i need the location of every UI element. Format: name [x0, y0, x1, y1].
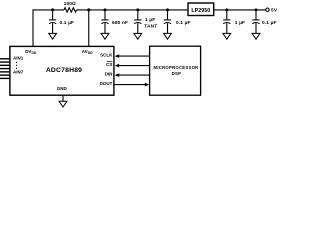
ground under C3: [134, 33, 142, 39]
svg-text:1 µF: 1 µF: [235, 20, 245, 26]
microprocessor U3 box: [150, 46, 201, 95]
svg-text:5V: 5V: [271, 7, 278, 13]
ground under C6: [252, 33, 260, 39]
ADC U1 box: [10, 46, 114, 95]
resistor R1 100 ohm: [64, 8, 76, 12]
svg-text:AIN1: AIN1: [13, 55, 24, 60]
svg-text:ADC78H89: ADC78H89: [46, 67, 82, 74]
wire top rail left segment: [33, 10, 64, 47]
svg-text:DOUT: DOUT: [100, 81, 113, 86]
ground under ADC: [59, 101, 67, 107]
wire AVDD drop: [88, 10, 90, 47]
svg-text:LP2950: LP2950: [191, 8, 210, 14]
node dots between AIN labels: [16, 62, 17, 69]
wire SCLK with arrow into ADC: [118, 55, 150, 57]
capacitor C5 1uF: [223, 10, 230, 34]
wire DIN with arrow into ADC: [118, 74, 150, 76]
svg-text:CS: CS: [106, 62, 112, 67]
svg-text:100Ω: 100Ω: [64, 1, 76, 7]
svg-text:0.1 µF: 0.1 µF: [60, 20, 75, 26]
svg-text:DIN: DIN: [105, 72, 113, 77]
capacitor C4 0.1uF: [164, 10, 171, 34]
analog input bus AIN1-AIN7: [0, 59, 10, 79]
wire rail middle: [77, 9, 189, 11]
capacitor C6 0.1uF: [252, 10, 259, 34]
ground under C4: [164, 33, 172, 39]
svg-text:AIN7: AIN7: [13, 70, 24, 75]
svg-text:0.1 µF: 0.1 µF: [176, 20, 191, 26]
wire GND stem: [62, 95, 64, 101]
svg-text:680 nF: 680 nF: [112, 20, 128, 26]
capacitor C1 0.1uF: [49, 10, 56, 34]
svg-text:DSP: DSP: [172, 71, 182, 76]
ground under C2: [101, 33, 109, 39]
svg-text:SCLK: SCLK: [100, 53, 113, 58]
ground under C1: [49, 33, 57, 39]
capacitor C2 680nF: [101, 10, 108, 34]
svg-text:1 µF: 1 µF: [145, 17, 155, 23]
capacitor C3 1uF TANT: [134, 10, 141, 34]
wire rail right of LP2950: [214, 9, 266, 11]
regulator U2 LP2950: [188, 3, 214, 16]
svg-text:TANT: TANT: [144, 24, 157, 30]
node 5V terminal: [266, 8, 269, 11]
svg-text:MICROPROCESSOR: MICROPROCESSOR: [154, 65, 199, 70]
wire CS with arrow into ADC: [118, 65, 150, 67]
svg-text:0.1 µF: 0.1 µF: [262, 20, 277, 26]
junction dots: [51, 8, 257, 11]
ground under C5: [223, 33, 231, 39]
wire DOUT with arrow into DSP: [114, 84, 146, 86]
svg-text:GND: GND: [57, 86, 68, 91]
